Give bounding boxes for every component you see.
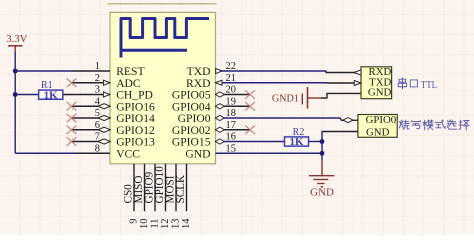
svg-text:3.3V: 3.3V: [6, 33, 27, 45]
wire 3.3V rail vertical: [14, 52, 16, 153]
pin 8 VCC: [15, 143, 140, 160]
pin arrow GPIO0 bidirectional: [343, 118, 353, 123]
svg-text:GND: GND: [310, 187, 334, 199]
wire node vertical: [323, 131, 358, 133]
svg-text:22: 22: [226, 61, 236, 72]
svg-text:GND: GND: [185, 147, 210, 160]
pin 22 TXD: [187, 61, 361, 78]
svg-text:1K: 1K: [44, 90, 59, 102]
pin 6 GPIO12: [72, 120, 156, 137]
svg-text:21: 21: [226, 73, 236, 84]
junction node pin1: [13, 69, 18, 74]
no-ERC marker on pin 6: [67, 125, 77, 134]
svg-text:6: 6: [95, 120, 100, 131]
pin 19 GPIO04: [172, 96, 250, 113]
junction node R2: [320, 139, 325, 144]
svg-text:20: 20: [226, 85, 236, 96]
pin 13 MOSI: [164, 164, 181, 229]
antenna meander symbol: [121, 19, 209, 58]
svg-text:SCLK: SCLK: [175, 175, 187, 204]
no-ERC marker on pin 5: [67, 114, 77, 123]
svg-text:7: 7: [95, 132, 100, 143]
svg-text:13: 13: [170, 219, 181, 229]
pin 14 SCLK: [175, 164, 192, 229]
svg-text:19: 19: [226, 96, 236, 107]
IC U1 ESP8266 module body: [110, 12, 216, 163]
pin 3 CH_PD: [63, 85, 153, 102]
svg-text:5: 5: [95, 108, 100, 119]
svg-text:1K: 1K: [289, 136, 304, 148]
pin arrow RXD output: [354, 70, 361, 75]
svg-text:GND: GND: [368, 87, 392, 99]
svg-text:12: 12: [160, 219, 171, 229]
wire GND1 to port: [321, 93, 361, 98]
junction node R1: [13, 92, 18, 97]
svg-text:15: 15: [226, 143, 236, 154]
svg-text:GND1: GND1: [272, 94, 299, 105]
svg-text:8: 8: [95, 143, 100, 154]
wire 3.3V to R1: [15, 94, 38, 96]
svg-text:TTL: TTL: [421, 79, 437, 91]
svg-text:GPIO0: GPIO0: [366, 114, 397, 126]
svg-text:10: 10: [139, 219, 150, 229]
pin 9 CS0: [122, 164, 139, 224]
ground GND power port: [309, 160, 335, 199]
wire: [108, 3, 217, 5]
power port GND1: [272, 87, 321, 109]
pin 5 GPIO14: [72, 108, 156, 125]
svg-text:9: 9: [128, 219, 139, 224]
svg-text:11: 11: [149, 219, 160, 229]
svg-text:16: 16: [226, 132, 236, 143]
pin 11 GPIO9: [143, 164, 160, 229]
wire R2 to node: [309, 141, 323, 143]
pin 10 MISO: [133, 164, 150, 229]
svg-text:3: 3: [95, 85, 100, 96]
pin 2 ADC: [72, 73, 141, 90]
pin 21 RXD: [186, 73, 361, 90]
net label 烧写模式选择: [399, 120, 469, 130]
no-ERC marker on pin 7: [67, 137, 77, 146]
pin 12 GPIO10: [154, 164, 171, 229]
svg-text:18: 18: [226, 108, 236, 119]
connector port GPIO0/GND (flash mode): [358, 114, 397, 138]
connector port RXD/TXD/GND (serial TTL): [361, 66, 392, 99]
svg-text:VCC: VCC: [116, 147, 140, 160]
pin 1 REST: [15, 61, 144, 78]
no-ERC marker on pin 20: [245, 90, 255, 99]
pin 18 GPIO0: [178, 108, 358, 125]
resistor R1 1K: [39, 80, 63, 101]
resistor R2 1K: [285, 127, 309, 148]
pin 17 GPIO02: [172, 120, 250, 137]
svg-text:GND: GND: [366, 126, 390, 138]
pin 7 GPIO13: [72, 132, 156, 149]
svg-text:4: 4: [95, 96, 101, 107]
pin 4 GPIO16: [72, 96, 156, 113]
pin 20 GPIO05: [172, 85, 250, 102]
no-ERC marker on pin 19: [245, 102, 255, 111]
junction node GND wire: [320, 151, 325, 156]
pin 15 GND: [185, 143, 322, 160]
svg-text:17: 17: [226, 120, 236, 131]
svg-text:2: 2: [95, 73, 100, 84]
no-ERC marker on pin 4: [67, 102, 77, 111]
svg-text:1: 1: [95, 61, 100, 72]
power port 3.3V: [6, 33, 27, 53]
pin arrow TXD input: [354, 80, 361, 85]
no-ERC marker on pin 17: [245, 125, 255, 134]
no-ERC marker on pin 2: [67, 78, 77, 87]
pin 16 GPIO15: [172, 132, 285, 149]
net label 串口TTL: [398, 78, 437, 91]
svg-text:14: 14: [181, 218, 192, 229]
